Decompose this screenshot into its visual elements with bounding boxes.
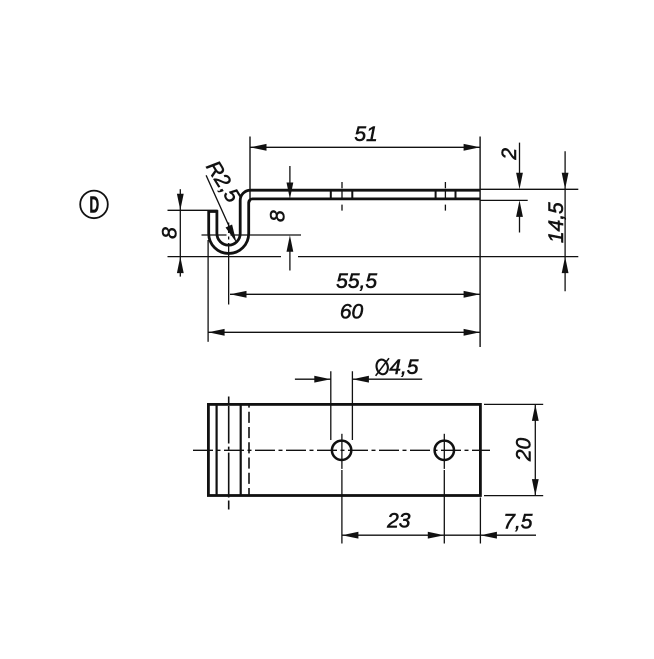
bottom view: bend tangent line 1 [216,404,218,495]
view label D balloon [80,191,108,219]
dimension Ø4,5: dimension line and arrows [295,378,422,380]
dimension 8 (inner): dimension line and arrows [289,166,291,271]
dimension 60: dimension line and arrows [208,331,480,333]
svg-text:8: 8 [159,227,182,239]
dimension 55,5: dimension line and arrows [230,293,480,295]
bottom view: bend centerline (vertical) [228,397,230,510]
svg-text:7,5: 7,5 [503,511,533,534]
bottom view: hole 1 vertical centerline [341,434,343,469]
bottom view: bend tangent line 2 [240,404,242,495]
svg-text:60: 60 [340,300,364,323]
top view: hook horizontal centerline [202,234,302,236]
top view: hook profile contour [209,190,480,253]
dimension Ø4,5: extension lines [331,371,353,440]
bottom view: hidden bend line (dashed) [248,403,250,495]
dimension 2: dimension line and arrows [519,143,521,233]
bottom view: horizontal centerline [193,449,490,451]
dimension 23 and 7,5: extension lines [342,470,481,544]
svg-text:14,5: 14,5 [545,202,568,243]
dimension Ø4,5: text [375,356,419,379]
dimension 7,5: arrow [480,532,497,539]
dimension 51: extension lines [250,137,480,348]
svg-text:D: D [89,192,99,218]
dimension 8 (left): dimension line and arrows [179,189,181,276]
top view: hole 1 centerline mark [341,182,343,211]
dimension R2,5: leader line and arrow [206,175,235,239]
dimension 51: dimension line and arrows [250,146,480,148]
dimension 14,5: dimension line and arrows [564,151,566,291]
dimension 60: extension line [207,240,209,342]
bottom view: hole 2 vertical centerline [443,434,445,469]
dimension 23: dimension line and arrows [342,534,536,536]
bottom view: hole 1 [332,441,351,460]
top view: hole 1 edge ticks in strip [331,191,353,197]
top view: hole 2 edge ticks in strip [436,191,456,197]
svg-text:55,5: 55,5 [336,270,377,293]
dimension 8 (left): extension lines [168,210,579,256]
dimension 20: extension lines [484,404,543,495]
svg-text:20: 20 [513,438,536,463]
svg-text:2: 2 [498,148,521,161]
top view: hole 2 centerline mark [444,182,446,211]
svg-text:4,5: 4,5 [389,356,419,379]
top view: hook vertical centerline [228,223,230,305]
svg-text:8: 8 [266,210,289,222]
svg-text:51: 51 [354,123,377,146]
svg-text:23: 23 [386,509,411,532]
dimension 20: dimension line and arrows [534,404,536,495]
bottom view: hole 2 [435,441,454,460]
dimension 2: extension lines [481,189,579,200]
bottom view: plate outline [208,404,480,495]
